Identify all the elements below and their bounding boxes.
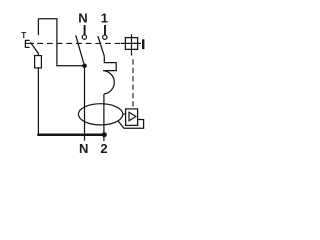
svg-text:1: 1 [101,11,108,26]
junction dot 2 [102,132,107,137]
mechanism linkage dashed vertical [132,59,134,109]
mechanism window square [125,38,137,50]
test contact fixed lead [37,19,39,35]
mechanism cross vertical [131,34,133,55]
1 switch blade [98,36,104,56]
1 terminal circle [103,35,107,39]
handle bar [142,39,144,49]
bottom bus wire [37,134,104,137]
svg-text:N: N [79,141,88,156]
toroid CT [78,104,122,125]
toroid to relay connector [123,113,126,115]
N switch blade [76,35,85,66]
resistor lead to bus [37,68,39,135]
relay triangle [129,112,136,121]
resistor R [35,56,42,68]
svg-text:N: N [78,11,87,26]
N terminal stub [84,25,86,35]
test button actuator [25,40,29,48]
coil step and winding arc on wire 1 [103,56,116,94]
N terminal circle [82,35,86,39]
N wire down through toroid [84,66,86,141]
junction dot [82,64,87,69]
wire 2 down to bus [103,94,105,141]
relay box [126,109,138,126]
svg-text:T: T [21,31,26,40]
svg-text:2: 2 [100,141,107,156]
test bridge wire [38,19,84,66]
1 terminal stub [104,25,106,35]
mechanism linkage dashed horizontal [37,42,120,44]
test button push rod [25,42,34,44]
test contact blade [30,42,38,55]
mechanism cross horizontal [121,42,142,44]
relay hook wire [118,120,144,129]
